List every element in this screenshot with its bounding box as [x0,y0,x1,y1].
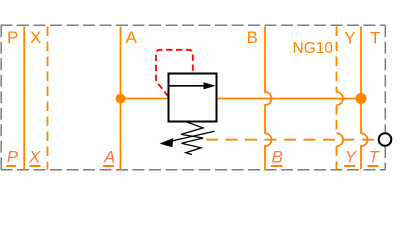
port line T (solid vertical with hop) [361,27,368,170]
spring (adjustable) below valve [181,122,203,155]
svg-text:X: X [30,28,41,47]
svg-text:P: P [7,148,19,167]
adjustment arrow across spring [166,131,215,142]
wire: drain line to Y/T (dashed) [206,139,378,141]
svg-text:NG10: NG10 [293,40,334,57]
svg-text:T: T [369,148,381,167]
svg-text:B: B [247,28,258,47]
pilot line (red dashed) from valve inlet to top of valve [156,50,193,97]
svg-text:P: P [7,28,18,47]
node: junction on A line [116,94,126,104]
svg-text:X: X [28,148,41,167]
port line P (solid vertical) [23,27,25,170]
port line X (dashed pilot vertical) [47,27,49,170]
wire: valve outlet to T line [217,98,362,100]
svg-text:Y: Y [345,148,358,167]
svg-text:A: A [103,148,115,167]
svg-text:Y: Y [344,29,355,48]
enclosure (sandwich plate outline, dashed) [1,25,386,170]
port line B (solid vertical with hops over crossing wires) [265,27,272,170]
measuring port (gauge circle) on right border [379,133,392,146]
svg-text:B: B [272,148,283,167]
valve V1: pressure relief valve body [169,74,217,122]
node: junction on T line [356,93,367,104]
valve V1: flow path arrow [170,85,206,87]
svg-text:T: T [370,29,380,48]
port line A (solid vertical) [120,27,122,170]
wire: A line to valve inlet [121,98,169,100]
port line Y (dashed vertical with hops) [337,27,344,170]
svg-text:A: A [126,28,138,47]
